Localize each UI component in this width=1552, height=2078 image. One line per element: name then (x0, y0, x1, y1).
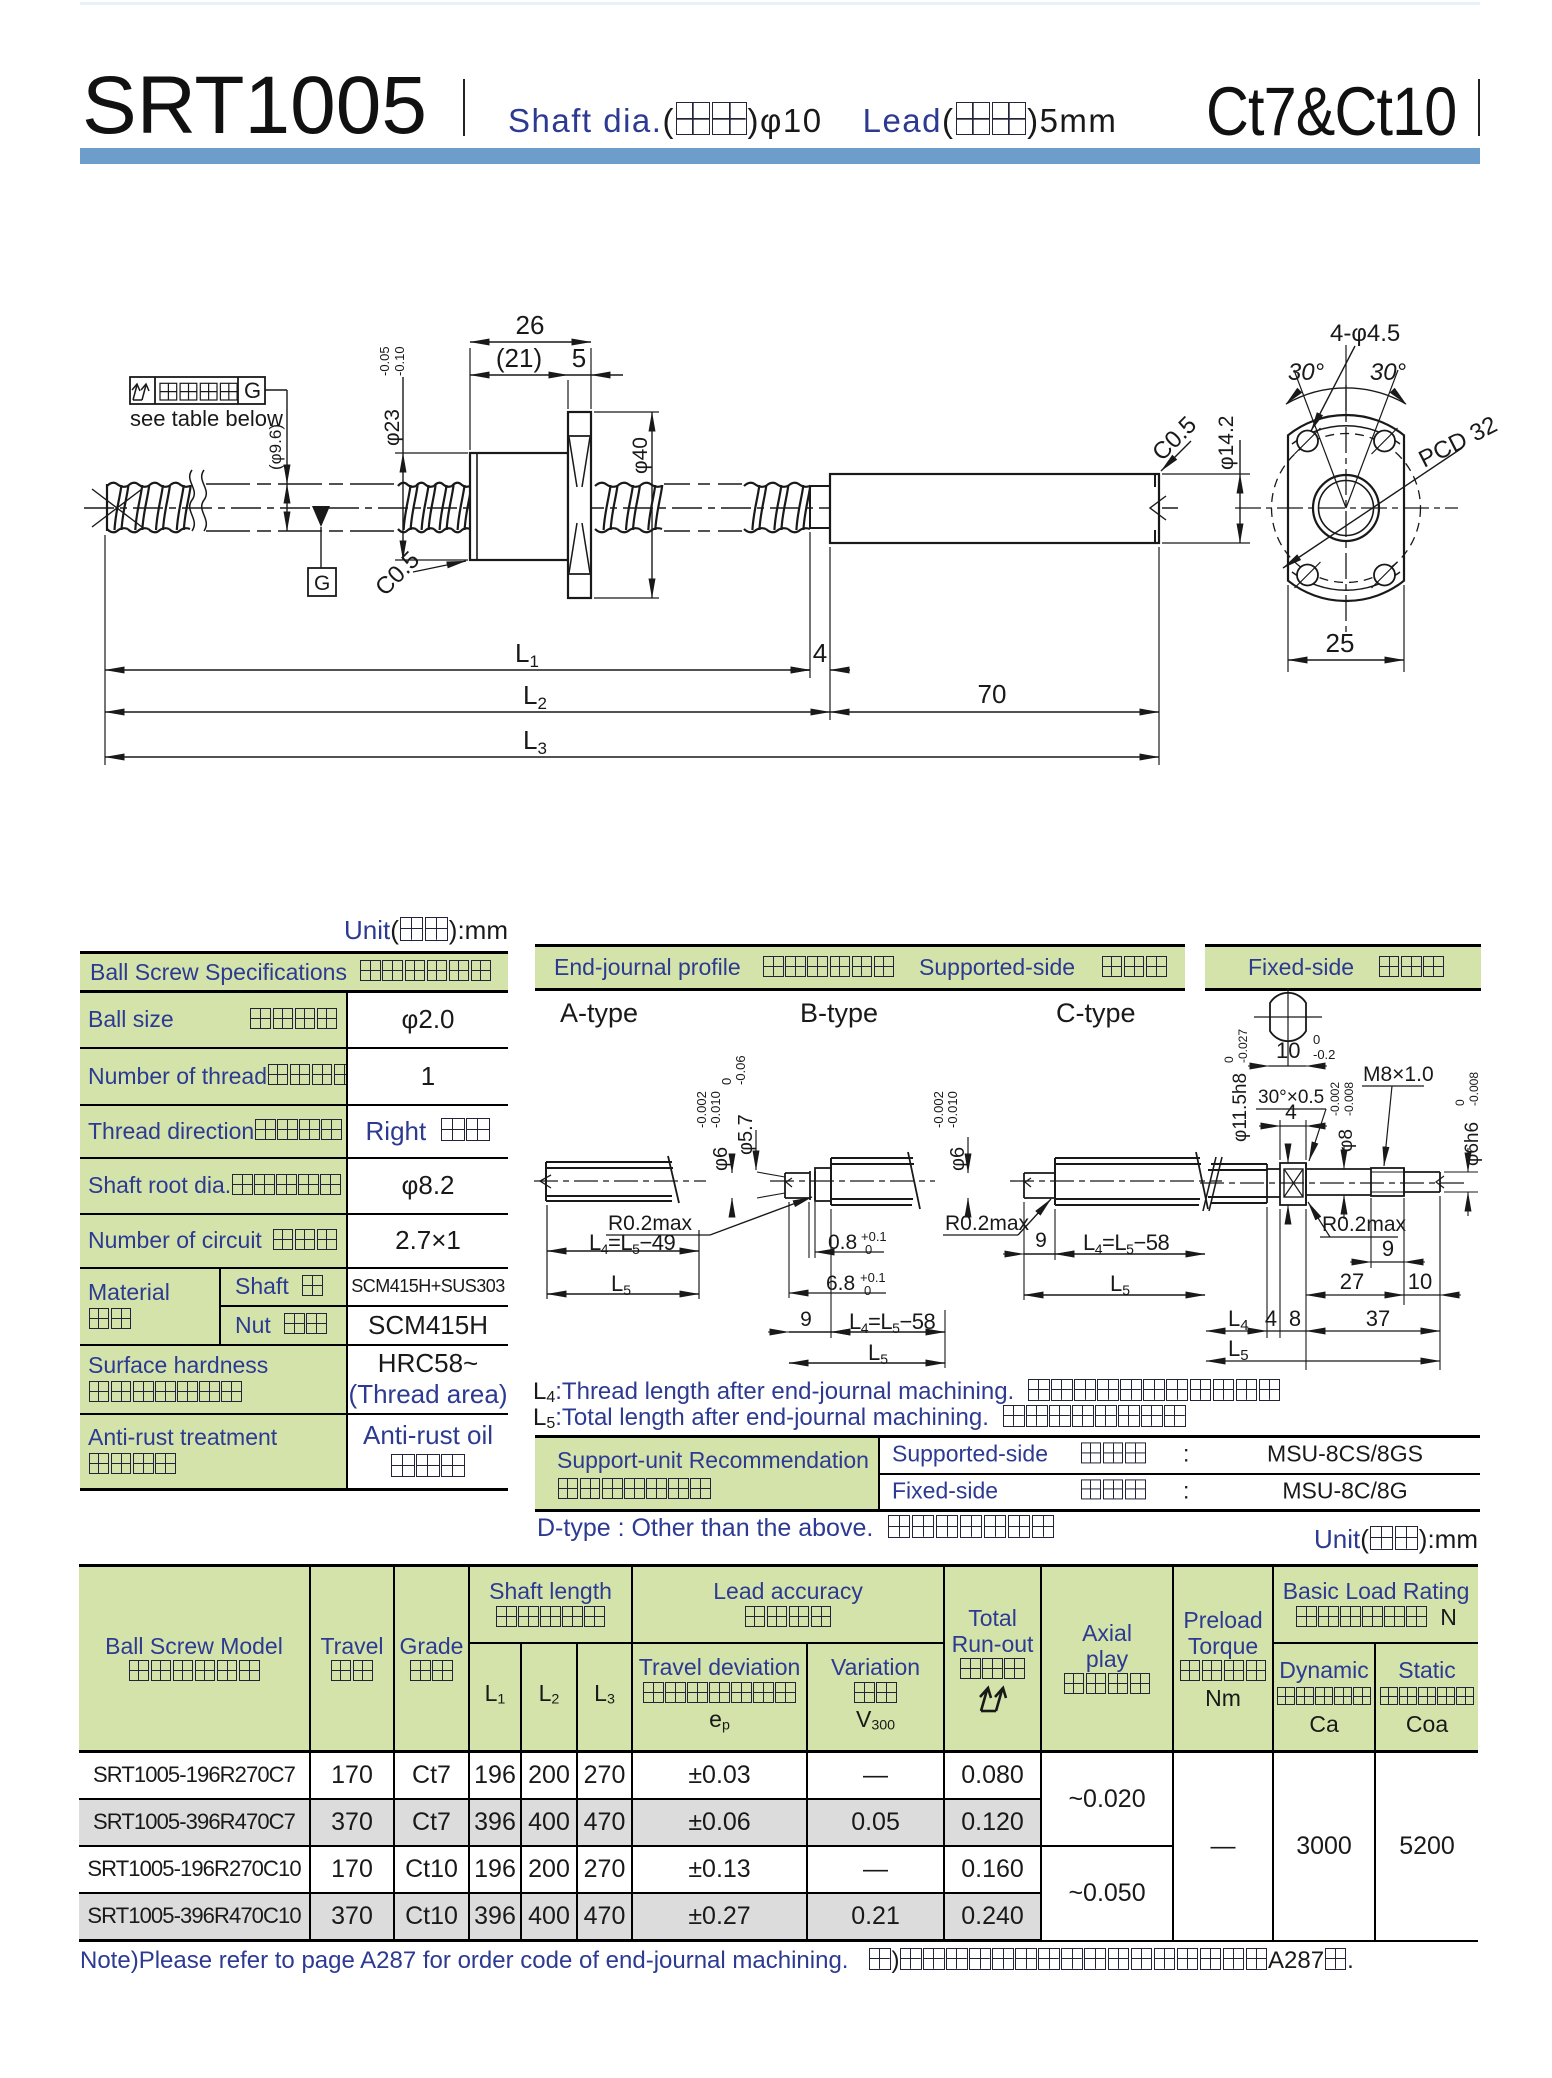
svg-text:0: 0 (864, 1283, 871, 1298)
svg-text:9: 9 (800, 1308, 812, 1331)
svg-text:-0.010: -0.010 (945, 1091, 960, 1128)
svg-text:-0.10: -0.10 (392, 346, 407, 376)
svg-text:-0.027: -0.027 (1236, 1029, 1250, 1063)
svg-text:φ6h6: φ6h6 (1462, 1122, 1483, 1166)
svg-text:30°: 30° (1288, 359, 1325, 386)
svg-text:-0.008: -0.008 (1342, 1082, 1356, 1116)
svg-text:G: G (314, 572, 330, 595)
svg-text:φ23: φ23 (381, 409, 404, 446)
svg-text:9: 9 (1035, 1229, 1047, 1252)
svg-text:φ6: φ6 (947, 1147, 969, 1171)
svg-text:4: 4 (1265, 1306, 1277, 1331)
svg-text:L2: L2 (523, 680, 547, 713)
svg-text:0: 0 (865, 1242, 872, 1257)
svg-text:(21): (21) (496, 343, 542, 373)
svg-text:L4: L4 (1228, 1306, 1249, 1334)
svg-text:-0.06: -0.06 (733, 1055, 748, 1085)
svg-text:-0.010: -0.010 (708, 1091, 723, 1128)
svg-text:6.8: 6.8 (826, 1272, 855, 1295)
svg-text:φ40: φ40 (629, 437, 652, 474)
svg-text:-0.008: -0.008 (1467, 1072, 1481, 1106)
svg-text:30°: 30° (1370, 359, 1407, 386)
svg-text:L3: L3 (523, 725, 547, 758)
svg-text:-0.002: -0.002 (1328, 1082, 1342, 1116)
svg-text:5: 5 (572, 343, 586, 373)
svg-text:25: 25 (1326, 628, 1355, 658)
svg-text:0: 0 (1313, 1032, 1320, 1047)
svg-text:4: 4 (813, 638, 827, 668)
svg-text:φ5.7: φ5.7 (735, 1114, 757, 1155)
svg-text:R0.2max: R0.2max (608, 1212, 693, 1235)
svg-text:L1: L1 (515, 638, 539, 671)
svg-text:-0.05: -0.05 (377, 346, 392, 376)
svg-text:8: 8 (1289, 1306, 1301, 1331)
svg-text:L5: L5 (611, 1271, 631, 1298)
svg-text:G: G (244, 378, 261, 403)
svg-text:L5: L5 (1110, 1271, 1130, 1298)
svg-text:37: 37 (1366, 1306, 1390, 1331)
svg-text:φ6: φ6 (710, 1147, 732, 1171)
svg-text:70: 70 (978, 679, 1007, 709)
svg-text:0: 0 (1453, 1099, 1467, 1106)
svg-text:-0.002: -0.002 (694, 1091, 709, 1128)
svg-text:0: 0 (1222, 1056, 1236, 1063)
svg-text:0.8: 0.8 (828, 1231, 857, 1254)
svg-text:R0.2max: R0.2max (1322, 1213, 1407, 1236)
svg-text:L5: L5 (1228, 1336, 1249, 1364)
svg-text:9: 9 (1382, 1236, 1394, 1261)
svg-text:(φ9.6): (φ9.6) (266, 424, 285, 470)
svg-text:PCD 32: PCD 32 (1414, 411, 1501, 473)
svg-text:-0.2: -0.2 (1313, 1047, 1335, 1062)
svg-text:27: 27 (1340, 1269, 1364, 1294)
svg-text:see table below: see table below (130, 406, 283, 431)
svg-text:φ11.5h8: φ11.5h8 (1230, 1073, 1251, 1142)
svg-text:L4=L5−58: L4=L5−58 (849, 1309, 936, 1336)
svg-text:φ14.2: φ14.2 (1215, 416, 1238, 471)
svg-text:26: 26 (516, 310, 545, 340)
svg-text:4-φ4.5: 4-φ4.5 (1330, 320, 1400, 347)
svg-text:R0.2max: R0.2max (945, 1212, 1030, 1235)
svg-text:-0.002: -0.002 (931, 1091, 946, 1128)
svg-text:10: 10 (1276, 1038, 1300, 1063)
svg-text:C0.5: C0.5 (370, 546, 425, 601)
svg-text:10: 10 (1408, 1269, 1432, 1294)
svg-text:4: 4 (1285, 1101, 1297, 1124)
svg-text:φ8: φ8 (1336, 1129, 1357, 1152)
svg-text:L4=L5−58: L4=L5−58 (1083, 1230, 1170, 1257)
svg-text:0: 0 (719, 1078, 734, 1085)
svg-text:M8×1.0: M8×1.0 (1363, 1063, 1434, 1086)
svg-text:L5: L5 (868, 1340, 888, 1367)
